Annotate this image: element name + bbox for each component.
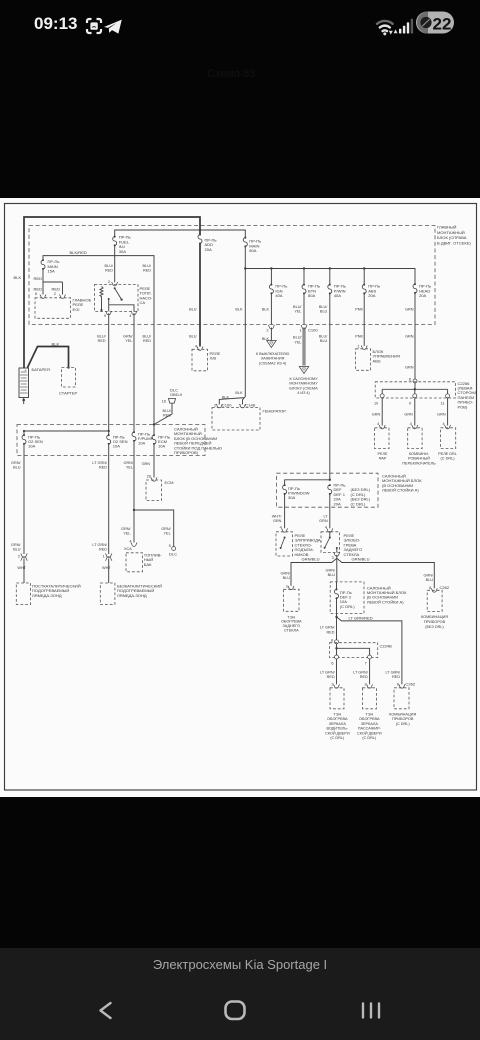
wire fuel pump feed — [133, 441, 135, 542]
fuse box A2 (dashed) — [330, 582, 364, 614]
svg-text:ОБОГРЕВА: ОБОГРЕВА — [327, 717, 348, 721]
svg-text:80A: 80A — [308, 293, 316, 298]
svg-text:YEL: YEL — [294, 340, 301, 344]
nav back chevron — [101, 1003, 111, 1018]
svg-text:BLU: BLU — [426, 578, 434, 582]
svg-text:C224B: C224B — [380, 644, 393, 649]
connector C2256 box — [375, 382, 455, 398]
svg-text:КОМБИНИ-: КОМБИНИ- — [409, 452, 430, 456]
svg-text:LT: LT — [323, 515, 328, 519]
svg-text:RED: RED — [99, 548, 107, 552]
svg-text:YEL: YEL — [123, 532, 130, 536]
node — [329, 267, 331, 269]
wire to window relay — [284, 494, 286, 528]
svg-text:GRN/: GRN/ — [161, 527, 171, 531]
svg-text:80A: 80A — [249, 248, 257, 253]
svg-text:11: 11 — [441, 402, 445, 406]
svg-text:(С DRL): (С DRL) — [441, 457, 456, 461]
svg-text:40A: 40A — [334, 293, 342, 298]
svg-text:(СХЕМА2 ИЗ 4): (СХЕМА2 ИЗ 4) — [259, 361, 287, 365]
svg-text:КОМБИНАЦИЯ: КОМБИНАЦИЯ — [389, 713, 416, 717]
svg-text:(С DRL): (С DRL) — [396, 722, 411, 726]
svg-text:26: 26 — [147, 475, 151, 479]
svg-text:2: 2 — [108, 280, 110, 284]
svg-text:8: 8 — [429, 586, 431, 590]
svg-text:ОБОГРЕВА: ОБОГРЕВА — [359, 717, 380, 721]
svg-text:GRN/: GRN/ — [11, 461, 21, 465]
svg-text:WHT: WHT — [102, 566, 111, 570]
svg-text:(С DRL): (С DRL) — [340, 604, 355, 609]
status bar — [34, 12, 454, 36]
screenshot icon — [87, 19, 101, 33]
svg-text:9: 9 — [104, 314, 106, 318]
svg-text:BLK: BLK — [262, 308, 270, 312]
svg-text:ТЭН: ТЭН — [333, 713, 341, 717]
svg-text:РЕЛЕ DRL: РЕЛЕ DRL — [438, 452, 457, 456]
telegram icon — [104, 20, 122, 34]
svg-text:ОБОГРЕВА: ОБОГРЕВА — [281, 620, 302, 624]
svg-text:GRN: GRN — [319, 519, 328, 523]
svg-text:Схема 83: Схема 83 — [207, 68, 255, 80]
wire to passenger mirror heater — [369, 659, 371, 684]
wire BLK to generator — [219, 325, 245, 405]
instrument cluster box (C DRL) — [394, 688, 409, 709]
connector 11 — [446, 394, 450, 398]
svg-text:09:13: 09:13 — [34, 14, 77, 33]
connector 6 — [335, 655, 339, 659]
svg-text:30A: 30A — [119, 249, 127, 254]
svg-text:ВОДИТЕЛЬ-: ВОДИТЕЛЬ- — [326, 727, 348, 731]
svg-text:(С DRL): (С DRL) — [351, 501, 366, 506]
connector C224B box — [330, 643, 378, 658]
svg-text:2: 2 — [18, 554, 20, 558]
svg-text:C262: C262 — [405, 682, 415, 687]
svg-text:C100: C100 — [222, 403, 232, 408]
svg-text:GRN: GRN — [437, 413, 446, 417]
wire left lambda — [23, 444, 25, 554]
power window fuse box (dashed) — [277, 473, 378, 507]
svg-text:OBD-II: OBD-II — [170, 392, 182, 397]
fuse ПР-Пь MAIN 80A — [243, 237, 247, 248]
svg-text:GRN: GRN — [142, 462, 151, 466]
svg-text:ECM: ECM — [165, 480, 175, 485]
page frame — [5, 204, 477, 791]
svg-text:ПАССАЖИР-: ПАССАЖИР- — [358, 727, 382, 731]
svg-text:ЗАЖИГАНИЯ: ЗАЖИГАНИЯ — [261, 357, 285, 361]
svg-text:GRN: GRN — [405, 366, 414, 370]
svg-text:LT GRN/: LT GRN/ — [92, 543, 108, 547]
svg-text:СКОЙ ДВЕРИ: СКОЙ ДВЕРИ — [325, 731, 350, 735]
svg-text:BLU: BLU — [13, 466, 21, 470]
node — [363, 267, 365, 269]
svg-text:6: 6 — [397, 683, 399, 687]
main fuse box label — [437, 225, 471, 246]
wire branch to P/WINDOW fuse — [285, 480, 330, 485]
svg-text:ТЭН: ТЭН — [365, 713, 373, 717]
node P/WIN branch — [329, 479, 331, 481]
battery pill — [416, 12, 454, 34]
svg-text:ЛЕВОЙ СТОЙКИ А): ЛЕВОЙ СТОЙКИ А) — [367, 599, 404, 604]
svg-text:RED: RED — [105, 269, 113, 273]
svg-text:YEL: YEL — [126, 466, 133, 470]
fuse ПР-Пь MAIN 15A — [41, 259, 45, 270]
svg-text:КОМБИНАЦИЯ: КОМБИНАЦИЯ — [421, 615, 448, 619]
svg-text:GRN: GRN — [372, 413, 381, 417]
svg-text:10A: 10A — [28, 444, 36, 449]
svg-text:1: 1 — [286, 585, 288, 589]
svg-text:BLU/: BLU/ — [163, 409, 172, 413]
svg-text:BLU/: BLU/ — [105, 264, 114, 268]
fuse ПР-Пь O2 SEN 10A left — [22, 434, 26, 445]
svg-text:3: 3 — [332, 556, 334, 560]
svg-text:RED: RED — [327, 675, 335, 679]
fuse ПР-Пь FUEL INJ 30A — [113, 236, 117, 247]
fuse ПР-Пь O2 SEN 10A right — [107, 434, 111, 445]
svg-text:К САЛОННОМУ: К САЛОННОМУ — [290, 377, 319, 381]
svg-text:2: 2 — [331, 683, 333, 687]
svg-text:(С DRL): (С DRL) — [362, 736, 377, 740]
svg-text:ПРИБОРОВ): ПРИБОРОВ) — [174, 450, 199, 455]
fuse ПР-Пь DEF 20A — [328, 484, 332, 495]
connector 7 — [368, 655, 372, 659]
svg-text:ЗЕРКАЛА: ЗЕРКАЛА — [329, 722, 347, 726]
svg-text:BLK: BLK — [235, 391, 243, 395]
svg-text:GRN: GRN — [404, 413, 413, 417]
svg-text:20A: 20A — [334, 501, 342, 506]
svg-text:BLK/RED: BLK/RED — [70, 250, 87, 255]
headlight relay box — [375, 428, 389, 449]
svg-text:1: 1 — [299, 329, 301, 333]
svg-text:РОВ): РОВ) — [458, 404, 468, 409]
svg-text:8: 8 — [331, 638, 333, 642]
svg-text:LT GRN/: LT GRN/ — [353, 671, 369, 675]
DRL relay box — [441, 428, 456, 449]
lambda sensor box right — [100, 583, 115, 605]
fuse ПР-Пь F/PUMP 10A — [132, 431, 136, 442]
svg-text:YEL: YEL — [125, 339, 132, 343]
wire to DLC power — [134, 510, 174, 546]
wire BLK column — [244, 269, 246, 325]
wire: inner feed line y230 — [115, 230, 246, 237]
svg-text:15A: 15A — [48, 269, 56, 274]
svg-text:EGI: EGI — [73, 307, 80, 312]
off-page arrow B to cabin fuse box — [299, 367, 309, 374]
svg-text:GRN/: GRN/ — [424, 574, 434, 578]
svg-text:GRN: GRN — [405, 335, 414, 339]
svg-text:C148: C148 — [245, 403, 255, 408]
svg-text:ТЭН: ТЭН — [287, 615, 295, 619]
wire: fuse MAIN15 to EGI relay pins — [43, 270, 63, 295]
wifi icon — [377, 21, 393, 35]
svg-text:20A: 20A — [205, 247, 213, 252]
svg-text:6: 6 — [35, 292, 37, 296]
svg-text:RED: RED — [360, 675, 368, 679]
ECM box — [146, 480, 162, 501]
svg-text:BLK: BLK — [222, 395, 230, 399]
fuse ПР-Пь IGN 40A — [270, 269, 272, 285]
fuse ПР-Пь ECM 10A — [153, 425, 155, 435]
svg-text:BLU: BLU — [189, 335, 197, 339]
wire: BLK/RED bus — [43, 256, 154, 425]
main fuse box (dashed) — [29, 226, 435, 325]
wire to relay X/B — [199, 244, 201, 347]
relay эл/привода стеклоподъемников box — [276, 532, 293, 556]
svg-text:C262: C262 — [440, 585, 450, 590]
svg-text:RED: RED — [163, 414, 171, 418]
svg-text:6: 6 — [331, 662, 333, 666]
wire ECM feed — [153, 444, 155, 477]
svg-text:RED: RED — [98, 339, 106, 343]
svg-text:LT GRN/: LT GRN/ — [385, 671, 401, 675]
svg-text:5: 5 — [169, 544, 171, 548]
svg-text:BLK: BLK — [52, 341, 60, 346]
svg-text:БЛОК (СПРАВА: БЛОК (СПРАВА — [437, 235, 467, 240]
svg-text:10A: 10A — [113, 444, 121, 449]
svg-text:DLC: DLC — [169, 551, 177, 556]
combination switch box — [408, 428, 422, 449]
svg-text:ПРИБОРОВ: ПРИБОРОВ — [392, 717, 414, 721]
svg-text:20A: 20A — [368, 293, 376, 298]
svg-text:RED: RED — [143, 269, 151, 273]
bottom app bar — [0, 948, 480, 1040]
svg-text:BLU: BLU — [320, 339, 328, 343]
svg-text:СА: СА — [140, 300, 146, 305]
svg-text:ГЕНЕРАТОР: ГЕНЕРАТОР — [263, 409, 287, 414]
svg-text:8: 8 — [409, 377, 411, 381]
driver mirror heater box — [330, 688, 344, 709]
svg-text:XCA: XCA — [124, 547, 132, 551]
svg-text:БАК: БАК — [144, 562, 152, 567]
wire: defogger output Y-split — [291, 555, 434, 589]
generator box — [212, 408, 260, 431]
svg-text:BLU/: BLU/ — [319, 335, 328, 339]
svg-text:BLU/: BLU/ — [293, 336, 302, 340]
ABS control unit box — [356, 349, 371, 371]
svg-text:LT GRN/RED: LT GRN/RED — [349, 616, 373, 621]
svg-text:(С DRL): (С DRL) — [330, 736, 345, 740]
wire to defogger relay — [329, 494, 331, 528]
nav recents — [363, 1004, 379, 1018]
fuse ПР-Пь ABS 20A — [363, 269, 365, 285]
node — [270, 267, 272, 269]
wire to cluster C DRL label — [385, 671, 401, 680]
relay РЕЛЕ ТОПЛ. НАСОСА — [95, 285, 139, 312]
svg-text:GRN/BLU: GRN/BLU — [352, 556, 370, 561]
fuse ПР-Пь BTN 80A — [303, 269, 305, 285]
svg-text:BLK: BLK — [14, 275, 22, 280]
svg-text:PNK: PNK — [355, 308, 363, 312]
svg-text:GRN/: GRN/ — [11, 543, 21, 547]
svg-text:СКОЙ ДВЕРИ: СКОЙ ДВЕРИ — [357, 731, 382, 735]
svg-text:10A: 10A — [158, 444, 166, 449]
svg-text:10A: 10A — [138, 441, 146, 446]
svg-text:WHT: WHT — [17, 566, 26, 570]
svg-text:2: 2 — [266, 329, 268, 333]
node — [244, 267, 246, 269]
svg-text:К ВЫКЛЮЧАТЕЛЮ: К ВЫКЛЮЧАТЕЛЮ — [256, 352, 290, 356]
wire: main distribution bus — [245, 247, 415, 284]
svg-text:LT GRN/: LT GRN/ — [320, 626, 336, 630]
svg-text:22: 22 — [433, 15, 452, 34]
wire relay pin4 down — [133, 313, 135, 433]
svg-text:GRN/BLU: GRN/BLU — [302, 556, 320, 561]
relay ГЛАВНОЕ РЕЛЕ EGI — [35, 298, 71, 319]
svg-text:ЗАДНЕГО: ЗАДНЕГО — [282, 624, 300, 628]
svg-text:ФАР: ФАР — [379, 457, 387, 461]
fuse ПР-Пь DEF 2 10A — [336, 582, 338, 589]
svg-text:СТЕКЛА: СТЕКЛА — [284, 629, 299, 633]
wire: C2256 internal bus — [382, 383, 447, 394]
svg-text:PNK: PNK — [355, 335, 363, 339]
svg-text:C100: C100 — [308, 328, 318, 333]
fuse ПР-Пь P/WIN 40A — [329, 269, 331, 285]
svg-text:2: 2 — [214, 404, 216, 408]
svg-text:РОВАННЫЙ: РОВАННЫЙ — [408, 457, 430, 461]
battery ground stub — [22, 399, 25, 402]
wire inside C224B — [337, 644, 370, 655]
svg-text:ЗЕРКАЛА: ЗЕРКАЛА — [361, 722, 379, 726]
fuse box A label — [382, 474, 422, 493]
svg-text:16: 16 — [162, 400, 166, 404]
svg-text:7: 7 — [364, 662, 366, 666]
svg-text:ЛЯМБДА-ЗОНД: ЛЯМБДА-ЗОНД — [32, 593, 62, 598]
svg-text:9: 9 — [409, 402, 411, 406]
svg-text:GRN/: GRN/ — [123, 335, 133, 339]
svg-text:Электросхемы Kia Sportage I: Электросхемы Kia Sportage I — [153, 957, 327, 972]
relay internals: switch — [114, 287, 116, 289]
svg-text:10: 10 — [374, 402, 378, 406]
svg-text:LT GRN/: LT GRN/ — [320, 671, 336, 675]
svg-text:БАТАРЕЯ: БАТАРЕЯ — [32, 367, 50, 372]
node at y230 crossing — [199, 229, 201, 231]
svg-text:WHT/: WHT/ — [272, 515, 283, 519]
wires to headlight relay group — [382, 398, 447, 426]
svg-text:BLU/: BLU/ — [97, 335, 106, 339]
svg-text:ЛЕВОЙ СТОЙКИ А): ЛЕВОЙ СТОЙКИ А) — [382, 488, 419, 493]
svg-text:RED: RED — [99, 466, 107, 470]
svg-text:4: 4 — [195, 345, 197, 349]
svg-text:BLU/: BLU/ — [319, 305, 328, 309]
svg-text:4 ИЗ 4): 4 ИЗ 4) — [297, 391, 310, 395]
svg-text:GRN/: GRN/ — [121, 527, 131, 531]
svg-text:RED: RED — [52, 287, 61, 292]
instrument cluster box (no DRL) — [427, 590, 442, 611]
svg-text:GRN/: GRN/ — [281, 572, 291, 576]
DLC OBD-II connector — [162, 388, 183, 404]
svg-text:(БЕЗ DRL): (БЕЗ DRL) — [425, 625, 444, 629]
svg-text:30A: 30A — [288, 495, 296, 500]
cabin fuse box (dashed) — [17, 425, 205, 456]
fuse ПР-Пь P/WINDOW 30A — [283, 484, 287, 495]
svg-text:BLU: BLU — [283, 576, 291, 580]
fuse ПР-Пь ADD 20A — [198, 234, 202, 245]
svg-text:МОНТАЖНОМУ: МОНТАЖНОМУ — [289, 382, 318, 386]
fuse ПР-Пь HEAD 20A — [413, 283, 417, 294]
connector 9 — [413, 394, 417, 398]
svg-text:RED: RED — [392, 675, 400, 679]
svg-text:1: 1 — [357, 345, 359, 349]
rear window defogger grid box — [284, 589, 300, 611]
wire DLC to ECM feed — [155, 403, 173, 424]
svg-text:GRN: GRN — [273, 519, 282, 523]
relay internals: coil — [100, 287, 103, 311]
svg-text:BLU/: BLU/ — [293, 305, 302, 309]
svg-text:GRN/: GRN/ — [326, 569, 336, 573]
white page — [0, 198, 480, 797]
svg-text:4: 4 — [129, 314, 131, 318]
passenger mirror heater box — [363, 688, 377, 709]
svg-text:YEL: YEL — [294, 310, 301, 314]
svg-text:ЛЯМБДА-ЗОНД: ЛЯМБДА-ЗОНД — [117, 593, 147, 598]
svg-text:В ДВИГ. ОТСЕКЕ): В ДВИГ. ОТСЕКЕ) — [437, 241, 471, 246]
svg-text:BLU/: BLU/ — [143, 335, 152, 339]
wire: battery plus feed loop — [24, 217, 200, 368]
svg-text:BLU: BLU — [189, 308, 197, 312]
svg-text:МОНТАЖНЫЙ: МОНТАЖНЫЙ — [437, 230, 465, 235]
lambda sensor box left — [16, 583, 30, 605]
svg-text:GRN: GRN — [405, 308, 414, 312]
svg-text:2: 2 — [364, 683, 366, 687]
svg-text:БЛОКУ (СХЕМА: БЛОКУ (СХЕМА — [289, 386, 318, 390]
svg-text:RED: RED — [34, 276, 43, 281]
svg-text:RED: RED — [326, 630, 334, 634]
svg-text:LT GRN/: LT GRN/ — [92, 461, 108, 465]
svg-text:СТАРТЕР: СТАРТЕР — [59, 391, 78, 396]
svg-text:RED: RED — [34, 287, 43, 292]
svg-text:BLU: BLU — [320, 310, 328, 314]
wire: lambda fuse bus — [24, 431, 109, 435]
svg-text:Х/В: Х/В — [210, 356, 217, 361]
svg-text:BLU/: BLU/ — [143, 264, 152, 268]
svg-text:2: 2 — [54, 292, 56, 296]
svg-text:ГЛАВНЫЙ: ГЛАВНЫЙ — [437, 225, 457, 230]
svg-text:GRN/: GRN/ — [124, 461, 134, 465]
battery — [19, 367, 29, 397]
relay эл/обогрева заднего стекла box — [321, 532, 340, 553]
svg-text:BLU: BLU — [328, 573, 336, 577]
cabin fuse box label — [174, 427, 222, 456]
svg-text:RED: RED — [143, 339, 151, 343]
connector 10 — [380, 394, 384, 398]
signal bars — [399, 19, 413, 34]
svg-text:BLU: BLU — [13, 548, 21, 552]
node — [303, 267, 305, 269]
svg-text:40A: 40A — [275, 293, 283, 298]
svg-text:РЕЛЕ: РЕЛЕ — [377, 452, 388, 456]
svg-text:ПЕРЕКЛЮЧАТЕЛЬ: ПЕРЕКЛЮЧАТЕЛЬ — [402, 461, 436, 465]
relay РЕЛЕ Х/В box — [192, 349, 208, 371]
wire: FUEL INJ fuse to fuel pump relay — [114, 246, 116, 282]
wire to driver mirror heater — [336, 659, 338, 684]
starter box — [62, 368, 76, 388]
wire right lambda — [108, 444, 110, 554]
svg-text:ПРИБОРОВ: ПРИБОРОВ — [424, 620, 446, 624]
nav home squircle — [226, 1002, 245, 1020]
svg-text:YEL: YEL — [164, 532, 171, 536]
wire relay pin9 down — [108, 313, 110, 431]
off-page arrow A to ignition switch — [267, 341, 277, 348]
svg-text:ABS: ABS — [373, 358, 381, 363]
svg-text:1: 1 — [103, 554, 105, 558]
wire BLK battery to starter — [28, 347, 69, 368]
wire DEF2 output with branch — [337, 599, 402, 685]
svg-text:BLK: BLK — [235, 308, 243, 312]
fuel tank box — [126, 553, 143, 572]
svg-text:20A: 20A — [419, 293, 427, 298]
